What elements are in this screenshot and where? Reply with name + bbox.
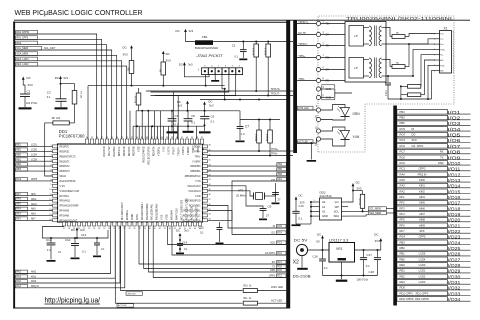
svg-text:17: 17 (63, 228, 65, 230)
svg-text:SCL_MEM: SCL_MEM (16, 47, 28, 50)
svg-text:LNK LED: LNK LED (127, 293, 136, 295)
svg-text:R1 49.9: R1 49.9 (253, 47, 255, 55)
svg-text:RC7: RC7 (277, 262, 282, 264)
svg-text:RF5: RF5 (400, 218, 406, 222)
svg-text:RF7: RF7 (400, 229, 406, 233)
svg-text:A1: A1 (322, 205, 326, 209)
LED YLW (297, 127, 359, 147)
ground C4 (167, 131, 178, 133)
svg-text:47: 47 (151, 137, 153, 139)
svg-text:56: 56 (106, 137, 108, 139)
svg-text:LCD4: LCD4 (419, 257, 426, 261)
svg-text:DS-210B: DS-210B (293, 274, 312, 278)
svg-text:Vcc: Vcc (335, 200, 340, 204)
svg-text:RD2 CPPW: RD2 CPPW (400, 297, 415, 301)
svg-text:SDA: SDA (333, 214, 339, 218)
ground C12 (47, 260, 56, 262)
svg-text:46: 46 (156, 137, 158, 139)
ground C1 (239, 59, 247, 61)
svg-text:RE0/P2D: RE0/P2D (60, 151, 70, 153)
svg-text:RG4: RG4 (16, 179, 21, 181)
svg-text:R8 49.9: R8 49.9 (256, 133, 258, 141)
svg-text:RF1/AN6/C2OUT: RF1/AN6/C2OUT (121, 202, 124, 220)
svg-text:X2: X2 (293, 260, 299, 266)
wire 5V rail (308, 249, 329, 251)
svg-text:GRN: GRN (353, 112, 361, 116)
svg-text:RE0: RE0 (400, 263, 406, 267)
svg-text:RA0/LEDB/AN0: RA0/LEDB/AN0 (156, 203, 159, 220)
svg-text:RC3: RC3 (400, 138, 406, 142)
svg-text:57: 57 (101, 137, 103, 139)
svg-text:0.1: 0.1 (211, 120, 215, 124)
svg-text:MCLR: MCLR (60, 176, 67, 178)
svg-text:31: 31 (134, 228, 136, 230)
ground C11 (71, 258, 80, 260)
svg-text:C5: C5 (191, 114, 195, 118)
wire Rx- to RJ45 (386, 49, 436, 77)
wire net RD2 CPPW (15, 30, 97, 139)
svg-text:ACT LED: ACT LED (271, 299, 282, 303)
svg-text:RA3: RA3 (16, 275, 21, 278)
svg-text:46: 46 (209, 155, 211, 157)
svg-text:RB4/KBI0: RB4/KBI0 (190, 166, 201, 168)
wire net SCL_MEM (15, 46, 112, 139)
power DC 3V3 (R3) (162, 51, 171, 63)
svg-text:V DD: V DD (195, 196, 201, 198)
svg-text:R14 10k: R14 10k (359, 198, 361, 205)
capacitor C14 (177, 241, 188, 253)
svg-text:FB1: FB1 (202, 35, 208, 39)
svg-text:RB3: RB3 (16, 169, 21, 171)
ground C6 (199, 131, 211, 133)
svg-text:27: 27 (266, 214, 270, 218)
svg-text:RB1/INT1: RB1/INT1 (60, 161, 71, 163)
ground C7 (236, 141, 245, 143)
svg-text:1: 1 (434, 33, 435, 35)
svg-text:8: 8 (434, 70, 435, 72)
svg-text:54: 54 (116, 137, 118, 139)
svg-text:DC: DC (176, 229, 180, 233)
ground LED common (307, 142, 317, 162)
capacitor C12 (46, 238, 62, 260)
capacitor C15 (199, 222, 223, 242)
svg-text:3v3: 3v3 (209, 103, 214, 107)
svg-text:C6: C6 (211, 114, 215, 118)
svg-text:50: 50 (136, 137, 138, 139)
wire JTAG aux (155, 75, 236, 96)
resistor R12 75 (386, 28, 409, 39)
svg-text:RC1: RC1 (400, 167, 406, 171)
wire PoE3 to RJ45 (428, 65, 436, 99)
choke L1 (400, 85, 421, 99)
wire FB1 output (213, 41, 243, 43)
svg-text:3V3: 3V3 (123, 53, 129, 57)
svg-text:LCD1: LCD1 (31, 145, 38, 147)
svg-text:RA4: RA4 (400, 172, 406, 176)
svg-text:100 0*16v: 100 0*16v (26, 102, 38, 105)
svg-text:37: 37 (164, 228, 166, 230)
transformer T1/T2 magnetics (345, 22, 386, 83)
svg-text:7: 7 (434, 65, 435, 67)
svg-text:DSR: DSR (438, 161, 444, 165)
svg-text:RA3: RA3 (400, 184, 406, 188)
svg-text:3v3: 3v3 (80, 228, 85, 232)
svg-text:RD2 CPPW: RD2 CPPW (415, 297, 429, 301)
svg-text:DC: DC (176, 29, 180, 33)
svg-text:0.1: 0.1 (191, 121, 195, 125)
svg-text:LCD5: LCD5 (419, 252, 426, 256)
svg-text:RF7/SS1: RF7/SS1 (60, 196, 70, 198)
svg-text:PoE-: PoE- (440, 65, 445, 67)
svg-text:A/C: A/C (440, 59, 444, 62)
svg-text:CPP5: CPP5 (31, 179, 38, 181)
svg-text:45: 45 (161, 137, 163, 139)
svg-text:0.1: 0.1 (184, 247, 188, 251)
svg-text:RC5: RC5 (277, 226, 282, 228)
svg-text:AVSS: AVSS (136, 214, 139, 220)
svg-text:LCD4: LCD4 (31, 155, 38, 157)
svg-text:RB2/INT2: RB2/INT2 (60, 166, 71, 168)
svg-text:LCD3: LCD3 (419, 280, 426, 284)
magnetics dotted enclosure (318, 16, 454, 152)
svg-text:LP: LP (354, 66, 358, 70)
svg-text:RD0: RD0 (400, 286, 406, 290)
wire 3v3 rail (355, 249, 382, 251)
ground C14 (176, 253, 184, 255)
svg-text:C3: C3 (47, 91, 51, 95)
connector I/O ladder rows (397, 110, 471, 302)
svg-text:ENVREG: ENVREG (127, 210, 129, 220)
svg-text:30: 30 (129, 228, 131, 230)
svg-text:60: 60 (86, 137, 88, 139)
svg-text:0.1: 0.1 (58, 251, 62, 254)
svg-text:RB1: RB1 (16, 159, 21, 161)
svg-text:LCD0: LCD0 (31, 150, 38, 152)
svg-text:RG4/CCP5P1D: RG4/CCP5P1D (60, 181, 76, 183)
capacitor C19 0.001 (385, 75, 432, 100)
frame top border (13, 21, 287, 23)
svg-text:22: 22 (88, 228, 90, 230)
svg-text:V SS: V SS (60, 186, 66, 188)
capacitor C16 (313, 250, 329, 276)
svg-text:1: 1 (314, 200, 315, 202)
capacitor C1 (232, 42, 247, 59)
svg-text:52: 52 (126, 137, 128, 139)
svg-text:FRQ IN: FRQ IN (418, 172, 427, 176)
svg-text:V SSRX: V SSRX (192, 161, 201, 163)
svg-text:DC: DC (166, 52, 170, 56)
svg-text:RA5: RA5 (400, 178, 406, 182)
svg-text:RB3: RB3 (400, 240, 406, 244)
svg-text:38: 38 (169, 228, 171, 230)
svg-text:RC4: RC4 (400, 133, 406, 137)
svg-text:PB4: PB4 (278, 164, 283, 166)
svg-text:RD1 CPP3: RD1 CPP3 (400, 291, 414, 295)
svg-text:Rx-: Rx- (440, 55, 443, 57)
svg-text:RD0: RD0 (16, 42, 21, 45)
svg-text:24LC512: 24LC512 (320, 194, 333, 198)
svg-text:C7: C7 (245, 125, 249, 129)
svg-text:3V3: 3V3 (375, 239, 381, 243)
IC DD1 top pins (85, 137, 205, 164)
svg-text:V DDRX: V DDRX (192, 147, 201, 149)
power DC 3v3 (FB1) (176, 29, 196, 42)
svg-text:RF6: RF6 (16, 199, 21, 201)
svg-text:V SS: V SS (162, 214, 164, 220)
svg-text:V DDPLL: V DDPLL (158, 146, 160, 156)
ground C5 (183, 131, 194, 133)
svg-text:C16: C16 (313, 254, 319, 258)
svg-text:RB0: RB0 (16, 154, 21, 156)
svg-text:48: 48 (146, 137, 148, 139)
svg-text:TRU0026ABNL/SK02-111006NL: TRU0026ABNL/SK02-111006NL (346, 16, 455, 21)
capacitor C2 (20, 90, 38, 108)
node TPOUT- label (297, 43, 316, 46)
svg-text:AN10: AN10 (31, 203, 37, 206)
svg-text:V SS: V SS (163, 146, 165, 152)
svg-text:SCL_1307: SCL_1307 (44, 47, 56, 50)
choke L2 (401, 93, 425, 97)
svg-text:58: 58 (96, 137, 98, 139)
svg-text:RE0: RE0 (16, 149, 21, 151)
svg-text:10: 10 (49, 189, 51, 191)
svg-text:43: 43 (194, 228, 196, 230)
node DC TP label (297, 32, 316, 35)
power DC 3v3 (C14) (176, 229, 189, 244)
svg-text:PB5: PB5 (278, 169, 283, 171)
ground C9 (259, 219, 267, 221)
wire JTAG PGC (151, 75, 229, 92)
LED GRN (297, 105, 360, 122)
svg-text:C1: C1 (232, 43, 236, 47)
svg-text:42: 42 (189, 228, 191, 230)
capacitor C18 (357, 250, 382, 282)
svg-text:ACT LED: ACT LED (118, 304, 127, 307)
svg-text:RE5/P1C: RE5/P1C (119, 146, 121, 156)
svg-text:JTAG PICKIT: JTAG PICKIT (195, 54, 223, 58)
svg-text:RG4: RG4 (400, 235, 406, 239)
wire net RD1 CPP3 (15, 36, 102, 140)
node KE1 label (208, 177, 287, 220)
svg-text:0.1: 0.1 (366, 264, 370, 268)
svg-text:C8: C8 (271, 178, 275, 182)
svg-text:34: 34 (209, 214, 211, 216)
wire TX+ to RJ45 (409, 34, 436, 37)
IC DD1 PIC18F67J60 body (58, 129, 203, 222)
connector JTAG header (198, 66, 242, 75)
svg-text:RA5/AN4: RA5/AN4 (171, 210, 174, 220)
svg-text:0.1: 0.1 (235, 55, 239, 59)
wire left pin rows (15, 143, 53, 221)
svg-text:RC4: RC4 (277, 233, 282, 235)
node PB5 label (208, 168, 287, 172)
svg-text:RX: RX (440, 150, 444, 154)
svg-text:DC: DC (71, 228, 75, 232)
svg-text:DI: DI (412, 127, 415, 131)
svg-text:RA2/AN2/VREF-: RA2/AN2/VREF- (146, 203, 149, 220)
wire TX- to RJ45 (386, 39, 436, 44)
svg-text:RA2: RA2 (16, 271, 21, 274)
svg-text:RB1: RB1 (400, 252, 406, 256)
svg-text:PB5: PB5 (400, 116, 406, 120)
svg-text:WP: WP (335, 205, 340, 209)
node SDA_MEM (348, 211, 394, 216)
svg-text:41: 41 (209, 179, 211, 181)
power DC 3v3 (C6) (203, 100, 214, 111)
svg-text:RD0/P3A: RD0/P3A (153, 146, 156, 156)
svg-text:RF2: RF2 (16, 218, 21, 220)
svg-text:AN9: AN9 (31, 208, 36, 211)
wire gnd rail (323, 275, 378, 277)
svg-text:RE3: RE3 (400, 280, 406, 284)
svg-text:SDA_MEM: SDA_MEM (16, 53, 28, 56)
connector RJ45 X1 (434, 27, 453, 74)
wire RC signal rows to bus (139, 206, 286, 278)
svg-text:34: 34 (149, 228, 151, 230)
svg-text:RG2/RX2: RG2/RX2 (114, 146, 116, 157)
capacitor C8 (271, 178, 281, 202)
svg-text:27: 27 (278, 198, 282, 202)
wire TPIN bias rail (240, 111, 280, 121)
svg-text:RA1/LEDA/AN1: RA1/LEDA/AN1 (151, 203, 154, 220)
svg-text:0.1: 0.1 (324, 266, 328, 270)
power DC 3v3 (VR1 out) (374, 233, 382, 251)
svg-text:BLM21PG221SN1D: BLM21PG221SN1D (195, 46, 218, 50)
svg-text:X1: X1 (444, 27, 448, 31)
svg-text:RF4/AN9: RF4/AN9 (60, 210, 70, 213)
svg-text:KIN1: KIN1 (419, 184, 425, 188)
svg-text:CPP2: CPP2 (419, 167, 426, 171)
wire net RE3 LCD3 (15, 57, 122, 139)
resistor R1 49.9 (253, 44, 259, 91)
title rule (14, 19, 470, 21)
svg-text:23: 23 (93, 228, 95, 230)
power DC 5V arrow (316, 233, 324, 251)
wire cap nest rail (43, 227, 109, 240)
power DC 3v3 (C5) (177, 100, 189, 111)
ground C10 (292, 224, 301, 226)
svg-text:RB5/KBI1: RB5/KBI1 (190, 171, 201, 173)
svg-text:DO: DO (412, 133, 416, 137)
svg-text:RB2: RB2 (400, 246, 406, 250)
node TPIN+ label (297, 55, 316, 58)
svg-text:V DDRX: V DDRX (188, 146, 190, 155)
svg-text:PoE+: PoE+ (440, 49, 446, 51)
svg-text:RC3: RC3 (277, 243, 282, 245)
svg-text:TX-: TX- (440, 39, 444, 41)
svg-text:DC: DC (179, 63, 183, 67)
svg-text:RF3/AN8: RF3/AN8 (60, 215, 70, 218)
svg-text:RF2: RF2 (400, 201, 406, 205)
ground C15 (216, 243, 224, 245)
svg-text:SCK: SCK (412, 138, 418, 142)
magnetics title (346, 16, 455, 21)
wire LINK LED row (121, 226, 286, 295)
svg-text:RE1/P2C: RE1/P2C (60, 147, 70, 149)
svg-text:C11: C11 (65, 238, 71, 242)
svg-text:A2: A2 (322, 210, 326, 214)
svg-text:C15: C15 (199, 226, 205, 230)
svg-text:http://picping.lg.ua/: http://picping.lg.ua/ (45, 297, 101, 304)
svg-text:RE4/P1B: RE4/P1B (124, 146, 126, 156)
svg-text:RC6/TX1/CK1: RC6/TX1/CK1 (191, 205, 193, 220)
wire VDD cap rail (165, 110, 240, 112)
capacitor C10 (292, 194, 311, 225)
power DC 3v3 (DD2) (348, 180, 363, 202)
svg-text:R11 1k: R11 1k (244, 298, 253, 300)
svg-text:25: 25 (103, 228, 105, 230)
node PB6 label (208, 172, 287, 176)
wire JTAG pin1 VPP (205, 75, 207, 87)
svg-text:40: 40 (186, 137, 188, 139)
svg-text:RE2 LCD2: RE2 LCD2 (16, 63, 29, 66)
IC DD1 bottom pins (62, 198, 201, 230)
svg-text:C10: C10 (299, 204, 305, 208)
wire PoE1 to RJ45 (421, 55, 436, 87)
svg-text:0.1: 0.1 (299, 216, 303, 220)
svg-text:KIN0: KIN0 (419, 178, 425, 182)
svg-text:35: 35 (154, 228, 156, 230)
ferrite bead FB1 (195, 35, 218, 50)
svg-text:C9: C9 (268, 205, 272, 209)
svg-text:3v3: 3v3 (188, 63, 193, 67)
svg-text:4: 4 (434, 49, 435, 51)
svg-text:R2 49.9: R2 49.9 (265, 47, 267, 55)
svg-text:RB0: RB0 (400, 257, 406, 261)
capacitor C11 (65, 238, 86, 257)
svg-text:LCD2: LCD2 (419, 274, 426, 278)
svg-text:KIN0: KIN0 (31, 281, 37, 283)
svg-text:V SS: V SS (195, 181, 201, 183)
svg-text:RF5/AN10/CVREF: RF5/AN10/CVREF (60, 205, 80, 208)
wire Rx+ to RJ45 (408, 43, 436, 66)
svg-text:AVDD: AVDD (131, 213, 134, 220)
resistor R14 pullup (359, 191, 364, 213)
connector X2 DC jack (293, 238, 312, 278)
svg-text:RE3/P3C: RE3/P3C (129, 146, 131, 156)
svg-text:AIN7: AIN7 (419, 212, 425, 216)
wire RB pins to PB labels (208, 163, 287, 167)
capacitor C13 (81, 233, 105, 255)
svg-text:51: 51 (131, 137, 133, 139)
svg-text:24: 24 (98, 228, 100, 230)
ground C8 (272, 203, 280, 205)
svg-text:0.1: 0.1 (101, 248, 105, 251)
JTAG PICKIT label (195, 54, 223, 58)
svg-text:AIN2: AIN2 (31, 271, 37, 274)
svg-text:3V3: 3V3 (356, 186, 362, 190)
svg-text:RC7/RX1/DT1: RC7/RX1/DT1 (196, 205, 198, 220)
svg-text:TPIN+: TPIN+ (271, 148, 279, 151)
ground C13 (93, 256, 101, 258)
ground JTAG (211, 75, 219, 82)
IC DD2 pin stubs (310, 200, 348, 224)
wire net RD0 (15, 41, 107, 139)
svg-text:0.1: 0.1 (82, 250, 86, 254)
wire MCLR net (45, 123, 53, 176)
svg-text:RF4: RF4 (400, 212, 406, 216)
svg-text:RF4: RF4 (16, 209, 21, 211)
resistor R2 49.9 (265, 44, 271, 96)
svg-text:DC 5V: DC 5V (294, 238, 308, 242)
svg-text:SDA_MEM: SDA_MEM (369, 212, 381, 215)
svg-text:RC1/T1OSI/ECCP2: RC1/T1OSI/ECCP2 (181, 199, 183, 220)
svg-text:6: 6 (434, 60, 435, 62)
svg-text:DI: DI (273, 226, 276, 228)
resistor R13 75 (386, 60, 409, 69)
wire TPOUT- rail (151, 93, 294, 97)
svg-text:59: 59 (91, 137, 93, 139)
